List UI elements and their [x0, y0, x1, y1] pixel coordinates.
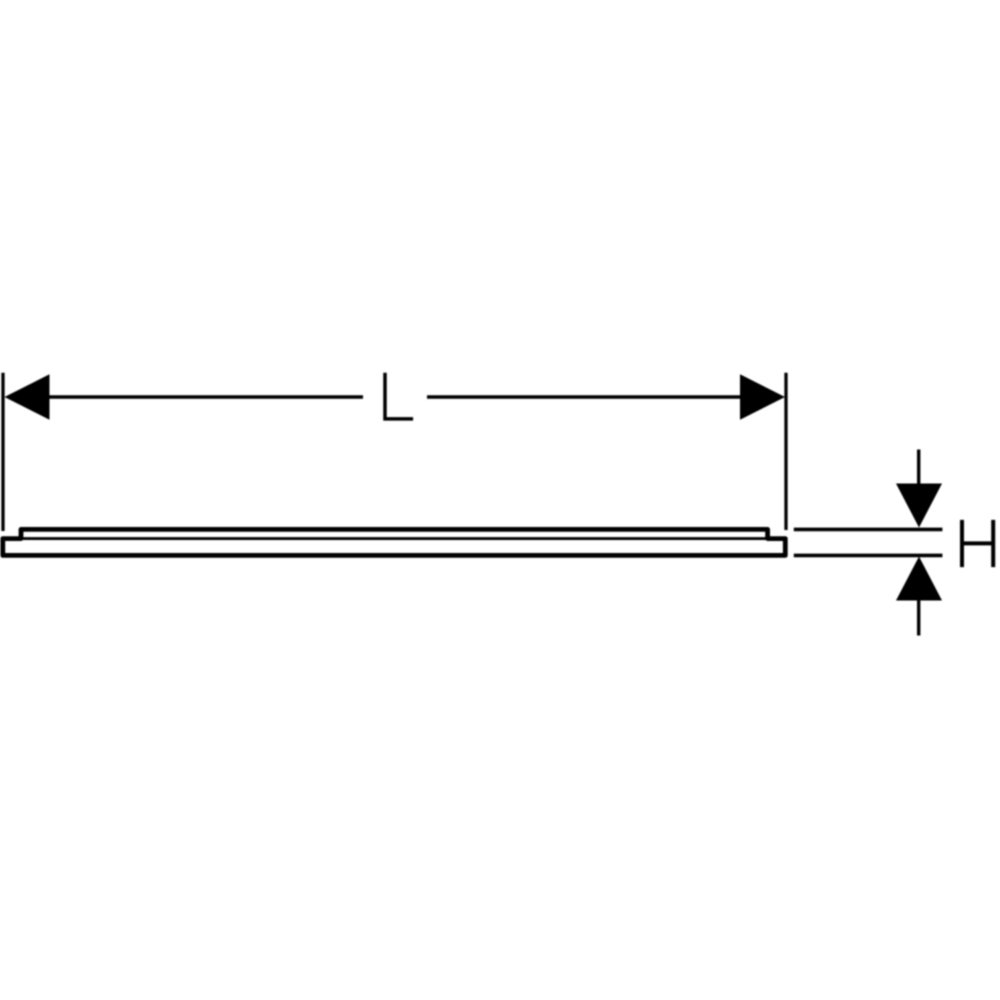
profile outline (side view of cover plate) [3, 529, 786, 555]
arrowhead right [740, 374, 785, 419]
arrowhead left [5, 374, 50, 419]
joint line (cover / frame separation) [23, 537, 766, 540]
H arrow tail top [917, 450, 920, 496]
dimension line L right segment [427, 395, 758, 399]
label H [962, 520, 993, 567]
dimension line L left segment [28, 395, 363, 399]
extension line left [1, 373, 4, 531]
extension line right [784, 373, 787, 530]
H extension line bottom [794, 554, 943, 558]
H arrow tail bottom [917, 590, 920, 636]
H extension line top [794, 528, 943, 532]
arrowhead up [896, 557, 942, 601]
arrowhead down [896, 484, 942, 528]
label L [385, 373, 413, 419]
